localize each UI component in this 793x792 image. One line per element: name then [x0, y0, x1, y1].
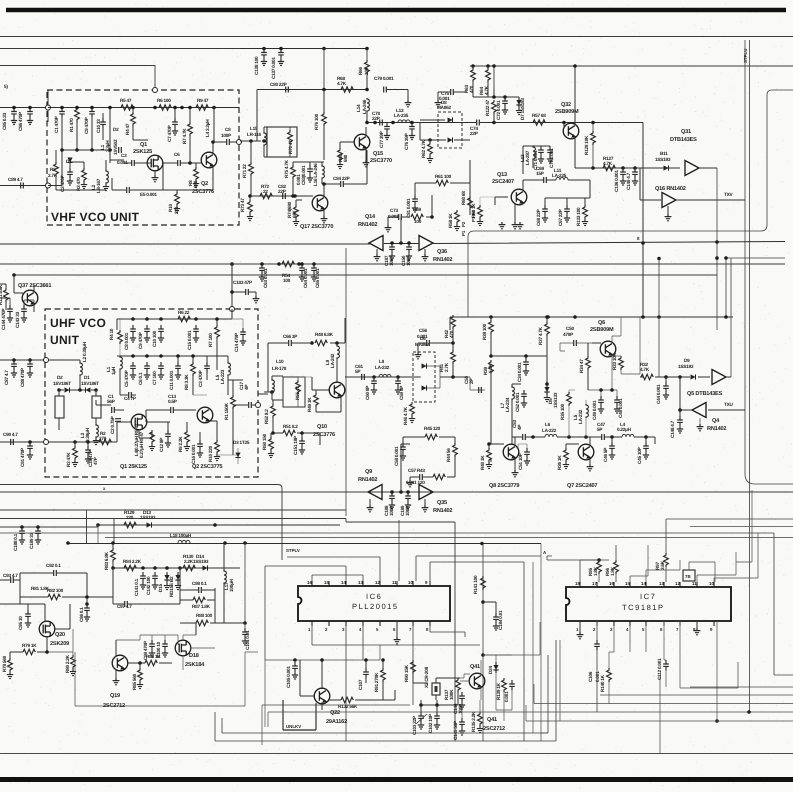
- transistor Q41 2SC2712: [469, 673, 485, 689]
- wire pin4 down: [362, 626, 364, 660]
- svg-text:470P: 470P: [563, 332, 573, 337]
- transistor Q7 2SC2407: [578, 444, 594, 460]
- svg-text:B11: B11: [660, 151, 668, 156]
- capacitor C142 100: [152, 572, 158, 582]
- capacitor C9 470P: [89, 108, 95, 118]
- resistor R59 100: [411, 214, 423, 219]
- wire x401: [401, 444, 491, 492]
- wires C73 R59: [388, 195, 432, 243]
- wire: [267, 712, 269, 727]
- ground IC7 pin8: [694, 628, 701, 635]
- svg-text:Q41: Q41: [487, 717, 497, 723]
- wire R90: [413, 674, 428, 683]
- wire y122 to D8: [420, 122, 470, 124]
- wire R79: [10, 652, 47, 658]
- pin 1 IC7: [579, 621, 581, 626]
- wire: [270, 433, 272, 437]
- svg-text:R81 1.8K: R81 1.8K: [31, 586, 50, 591]
- wires C102/C103: [421, 700, 458, 712]
- top border heavy bar: [6, 8, 786, 12]
- junction: [621, 166, 625, 170]
- capacitor C87: [11, 360, 17, 370]
- pin 12 IC6: [379, 581, 381, 586]
- wire E5: [112, 163, 163, 190]
- svg-text:R61 100: R61 100: [435, 174, 452, 179]
- bus y275: [14, 274, 717, 276]
- capacitor C14 470P: [240, 328, 246, 338]
- svg-text:C4 7P: C4 7P: [124, 396, 136, 401]
- junction: [145, 354, 149, 358]
- wire y543 STPLV: [68, 543, 541, 545]
- svg-text:100: 100: [414, 219, 422, 224]
- svg-text:C2 0.75P: C2 0.75P: [110, 416, 115, 434]
- wire R1: [228, 380, 243, 455]
- junction: [610, 388, 614, 392]
- svg-text:R75 4.7K: R75 4.7K: [284, 159, 289, 178]
- svg-text:C45 10P: C45 10P: [637, 447, 642, 464]
- wire C93: [0, 579, 20, 581]
- capacitor C7 100: [158, 362, 164, 372]
- pin 1 IC6: [311, 621, 313, 626]
- wires: [75, 442, 88, 446]
- capacitor C78 22P: [380, 120, 383, 126]
- junction: [138, 661, 142, 665]
- capacitor C7 470P: [172, 118, 178, 128]
- transistor Q32 2SB909M: [563, 123, 579, 139]
- pin 2 IC6: [328, 621, 330, 626]
- pin 6 IC7: [663, 621, 665, 626]
- junction: [60, 148, 64, 152]
- bus y527 left: [0, 526, 98, 528]
- svg-text:R56 1K: R56 1K: [471, 203, 476, 218]
- svg-text:C64 0.001: C64 0.001: [303, 268, 308, 288]
- svg-text:100: 100: [283, 278, 291, 283]
- svg-text:10: 10: [709, 581, 714, 586]
- capacitor C68 22P: [542, 205, 548, 215]
- svg-text:L10: L10: [276, 359, 284, 364]
- vert x483: [482, 544, 484, 742]
- svg-text:C102 10P: C102 10P: [428, 714, 433, 733]
- wires Q37: [0, 275, 34, 312]
- junction: [111, 541, 115, 545]
- svg-text:R44 56: R44 56: [446, 448, 451, 462]
- loop y706: [75, 652, 245, 706]
- ground IC6 pin6: [394, 637, 401, 644]
- svg-text:R3 470: R3 470: [76, 177, 81, 191]
- junction: [480, 542, 484, 546]
- node: [46, 183, 51, 188]
- junction: [591, 121, 595, 125]
- pin 17 IC7: [596, 582, 598, 587]
- junction: [90, 106, 94, 110]
- ch: [132, 160, 135, 166]
- capacitor C77 39P: [384, 123, 390, 133]
- ch: [427, 340, 430, 346]
- vert bus x749: [749, 40, 751, 712]
- capacitor C97 4.7: [125, 601, 128, 607]
- ground C56: [415, 352, 422, 359]
- junction: [481, 653, 485, 657]
- capacitor C93 4.7: [11, 577, 14, 583]
- svg-text:C6 0.1: C6 0.1: [138, 372, 143, 385]
- trir: [685, 161, 699, 176]
- UHF mid rail y356: [117, 355, 210, 357]
- capacitor C145 56P: [459, 718, 465, 728]
- wire left entry y185: [0, 185, 48, 187]
- loop Q22 region: [265, 645, 380, 727]
- section loop corner x767/y231: [468, 90, 793, 317]
- wire C13 row: [146, 410, 196, 422]
- junction: [503, 95, 507, 99]
- junction: [644, 435, 648, 439]
- ground C79: [405, 100, 412, 107]
- capacitor C101 0.01: [242, 628, 248, 638]
- junction: [20, 525, 24, 529]
- wires C144/C143: [10, 298, 34, 305]
- junction: [293, 194, 297, 198]
- svg-text:1SS193: 1SS193: [678, 364, 694, 369]
- junction: [191, 354, 195, 358]
- junction: [335, 341, 339, 345]
- svg-text:C70 0.001: C70 0.001: [549, 148, 554, 168]
- svg-text:2SK184: 2SK184: [185, 662, 205, 668]
- pin 11 IC7: [696, 582, 698, 587]
- wire pin12 feed: [287, 557, 380, 581]
- pin 11 IC6: [396, 581, 398, 586]
- svg-text:D2: D2: [113, 127, 119, 132]
- inductor L13 LA-235: [398, 120, 410, 123]
- ground Q15 e: [363, 160, 370, 167]
- ch: [249, 402, 252, 408]
- junction: [111, 566, 115, 570]
- junction: [678, 408, 682, 412]
- bottom thin rule: [0, 753, 793, 755]
- junction: [131, 106, 135, 110]
- capacitor C9u: [144, 325, 150, 335]
- svg-text:Q32: Q32: [561, 102, 571, 108]
- wire x324 col: [323, 90, 325, 161]
- junction: [66, 541, 70, 545]
- resistor R1 470: [75, 108, 80, 122]
- ground a: [499, 222, 506, 229]
- ch: [477, 120, 480, 126]
- svg-text:LA-246: LA-246: [362, 99, 367, 114]
- junction: [176, 354, 180, 358]
- junction: [271, 431, 275, 435]
- junction: [406, 490, 410, 494]
- svg-text:100P: 100P: [389, 506, 394, 516]
- resistor R84 2.2K: [124, 565, 136, 570]
- junction: [486, 64, 490, 68]
- svg-text:LB-167: LB-167: [96, 178, 101, 193]
- wire y433: [273, 433, 320, 445]
- capacitor C86: [27, 108, 33, 118]
- svg-text:R35 100: R35 100: [560, 403, 565, 420]
- junction: [212, 106, 216, 110]
- svg-text:C68 22P: C68 22P: [536, 209, 541, 226]
- ground Q8: [512, 470, 519, 477]
- transistor Q2 2SC3775 UHF: [197, 407, 213, 423]
- ch: [11, 439, 14, 445]
- wire: [139, 663, 141, 668]
- svg-text:LR-178: LR-178: [272, 366, 287, 371]
- svg-text:R133 100: R133 100: [576, 207, 581, 226]
- svg-text:C84 22P: C84 22P: [333, 176, 350, 181]
- svg-text:1SS193: 1SS193: [140, 515, 156, 520]
- junction: [310, 341, 314, 345]
- svg-text:D18: D18: [189, 653, 199, 659]
- pin15 wire: [630, 545, 648, 582]
- svg-text:R128 10K: R128 10K: [584, 135, 589, 155]
- pin 9 IC6: [429, 581, 431, 586]
- svg-text:R79 1K: R79 1K: [22, 643, 37, 648]
- svg-text:C138 100: C138 100: [254, 56, 259, 75]
- ground Q7: [587, 464, 594, 471]
- wire L17 col: [223, 543, 225, 623]
- wire: [493, 114, 495, 123]
- svg-text:R88 100: R88 100: [196, 613, 213, 618]
- transistor Q1 2SK125: [147, 155, 163, 171]
- pin 3 IC6: [345, 621, 347, 626]
- svg-text:RD15E B2: RD15E B2: [169, 576, 174, 597]
- capacitor C98 0.1: [199, 587, 202, 593]
- wire stub L: [58, 390, 60, 430]
- capacitor C67 22P: [564, 205, 570, 215]
- junction: [641, 315, 645, 319]
- svg-text:22P: 22P: [470, 131, 478, 136]
- wire C51: [518, 444, 527, 448]
- svg-text:C80 22P: C80 22P: [270, 82, 287, 87]
- svg-text:R51 8.2: R51 8.2: [283, 424, 298, 429]
- ch: [171, 407, 174, 413]
- svg-text:C87 4.7: C87 4.7: [4, 370, 9, 385]
- UHF VCO UNIT dashed box: [45, 309, 258, 477]
- capacitor C81 0.001: [412, 195, 418, 205]
- svg-text:270: 270: [99, 436, 107, 441]
- transistor Q10 2SC3776: [329, 382, 345, 398]
- capacitor C48 0.001: [614, 396, 620, 406]
- svg-text:DTB143ES: DTB143ES: [670, 137, 697, 143]
- pin 3 IC7: [613, 621, 615, 626]
- svg-text:R91 270K: R91 270K: [374, 672, 379, 692]
- svg-text:Q4: Q4: [712, 418, 720, 424]
- capacitor C79 0.001: [384, 87, 387, 93]
- resistor R7 4.7K: [188, 122, 193, 136]
- junction: [248, 194, 252, 198]
- buffer Q36 RN1402: [419, 236, 433, 251]
- capacitor C50 470P: [574, 340, 577, 346]
- wires R63/R64: [473, 66, 519, 97]
- wire C14: [232, 319, 243, 328]
- svg-text:C67 22P: C67 22P: [558, 209, 563, 226]
- bus line y36: [0, 36, 793, 38]
- svg-text:Q36: Q36: [437, 249, 447, 255]
- pin 10 IC6: [412, 581, 414, 586]
- pin 15 IC6: [328, 581, 330, 586]
- vert x731 + x659: [659, 259, 731, 378]
- wire R7: [216, 319, 218, 370]
- wire out: [258, 393, 268, 395]
- tril: [692, 403, 706, 418]
- junction: [365, 121, 369, 125]
- svg-text:C63 0.001: C63 0.001: [263, 268, 268, 288]
- wires bottom Q1/Q2: [139, 421, 217, 440]
- junction: [211, 140, 215, 144]
- resistor R2 270: [99, 439, 111, 444]
- junction: [322, 182, 326, 186]
- wire: [249, 196, 251, 200]
- junction: [545, 315, 549, 319]
- svg-text:RN1402: RN1402: [358, 222, 377, 228]
- junction: [372, 375, 376, 379]
- svg-text:0.001: 0.001: [504, 691, 509, 702]
- junction: [291, 194, 295, 198]
- wire L5: [210, 356, 228, 395]
- svg-text:R80 2.2K: R80 2.2K: [65, 654, 70, 673]
- wires Q22: [300, 660, 322, 710]
- pin10 wire: [714, 533, 758, 582]
- svg-text:1SV186T: 1SV186T: [53, 381, 71, 386]
- junction: [390, 241, 394, 245]
- pin 14 IC6: [345, 581, 347, 586]
- buffer Q9 RN1402: [368, 485, 382, 500]
- svg-text:C148 4.7: C148 4.7: [670, 420, 675, 438]
- wires R80: [47, 629, 73, 655]
- transistor Q15 2SC3770: [354, 134, 370, 150]
- resistor R57 68: [533, 120, 545, 125]
- capacitor C141 0.1: [140, 572, 146, 582]
- svg-text:C5 470P: C5 470P: [124, 370, 129, 387]
- capacitor C18 47P: [85, 446, 91, 456]
- buffer Q14 RN1402: [369, 236, 383, 251]
- transistor Q20 2SK209: [39, 621, 55, 637]
- svg-text:R46 4.7K: R46 4.7K: [403, 406, 408, 425]
- svg-text:C46 5P: C46 5P: [603, 448, 608, 462]
- wire y377: [640, 376, 731, 378]
- wire y243 row: [0, 242, 785, 245]
- capacitor C187 100P: [389, 243, 395, 253]
- svg-text:C10 100: C10 100: [152, 330, 157, 347]
- wire C50: [560, 343, 592, 351]
- svg-text:TXV: TXV: [724, 192, 733, 197]
- svg-text:R1 470: R1 470: [69, 118, 74, 132]
- capacitor cpl: [119, 147, 122, 153]
- svg-text:Q9: Q9: [365, 469, 372, 475]
- junction: [300, 431, 304, 435]
- svg-text:12: 12: [675, 581, 680, 586]
- ground C57: [407, 480, 414, 487]
- junction: [249, 139, 253, 143]
- dh: [691, 374, 696, 379]
- svg-text:C183 47P: C183 47P: [233, 280, 252, 285]
- svg-text:5P: 5P: [597, 427, 602, 432]
- vert x245: [244, 543, 246, 628]
- svg-text:10: 10: [408, 580, 413, 585]
- wires caps row: [545, 180, 590, 205]
- svg-text:0.27µH R5 47: 0.27µH R5 47: [139, 431, 144, 458]
- junction: [365, 47, 369, 51]
- pin14 wire: [646, 560, 680, 582]
- junction: [153, 566, 157, 570]
- loop y741: [215, 640, 556, 741]
- capacitor C105 0.001: [292, 662, 298, 672]
- svg-text:C96 0.1: C96 0.1: [79, 607, 84, 622]
- svg-text:R7 100: R7 100: [208, 333, 213, 347]
- wires Q13: [495, 180, 590, 222]
- svg-text:R131 5.6K: R131 5.6K: [0, 284, 3, 305]
- junction: [262, 139, 266, 143]
- varactor D8 MA862 dashed box: [438, 112, 462, 148]
- capacitor C15 0.001: [193, 325, 199, 335]
- svg-text:C16 0.001: C16 0.001: [191, 444, 196, 464]
- node UHF RF out: [256, 403, 261, 408]
- pin 16 IC7: [613, 582, 615, 587]
- wires Q6 coll: [612, 317, 621, 374]
- svg-text:C100 10: C100 10: [156, 641, 161, 658]
- capacitor C100 10: [162, 640, 168, 650]
- wires X2: [436, 678, 460, 700]
- wire pin9 down: [716, 621, 718, 721]
- bus y66 right + drop x494: [470, 66, 793, 90]
- capacitor C72 0.001: [502, 97, 508, 107]
- junction: [131, 354, 135, 358]
- svg-text:R9 2.2K: R9 2.2K: [178, 436, 183, 452]
- svg-text:1SV186T: 1SV186T: [81, 381, 99, 386]
- svg-text:R40 1K: R40 1K: [480, 455, 485, 470]
- svg-text:C85 0.33: C85 0.33: [2, 112, 7, 130]
- capacitor C58 0.001: [400, 443, 406, 453]
- junction: [584, 435, 588, 439]
- junction: [567, 435, 571, 439]
- transistor Q1 2SK125 UHF: [131, 414, 147, 430]
- junction: [96, 523, 100, 527]
- wire R56: [480, 197, 495, 205]
- svg-text:1SS193: 1SS193: [193, 559, 209, 564]
- junction: [545, 382, 549, 386]
- junction: [108, 148, 112, 152]
- buffer Q35 RN1402: [419, 485, 433, 500]
- pin 14 IC7: [645, 582, 647, 587]
- resistor R10 220: [175, 192, 180, 206]
- svg-text:R122 47: R122 47: [485, 99, 490, 116]
- svg-text:C8: C8: [225, 127, 231, 132]
- wires Q16: [640, 168, 745, 214]
- svg-text:VHF VCO UNIT: VHF VCO UNIT: [51, 210, 140, 224]
- svg-text:C12 8P: C12 8P: [159, 438, 164, 452]
- junction: [12, 106, 16, 110]
- junction: [320, 658, 324, 662]
- capacitor C65 0.001: [311, 264, 317, 274]
- svg-text:C77 39P: C77 39P: [379, 131, 384, 148]
- ground Q16: [665, 214, 672, 221]
- ground Q4: [697, 424, 704, 431]
- wire: [261, 705, 263, 745]
- capacitor C91 470P: [27, 442, 33, 452]
- wire: [369, 499, 371, 505]
- pin 7 IC6: [412, 621, 414, 626]
- dh: [147, 522, 152, 527]
- ground Q13: [512, 222, 519, 229]
- node: [44, 358, 49, 363]
- junction: [230, 290, 234, 294]
- bus line y48 + drop x324: [0, 49, 367, 90]
- UHF top rail: [117, 309, 232, 330]
- svg-text:1SS133: 1SS133: [553, 392, 558, 408]
- ch: [115, 419, 121, 422]
- pin 2 IC7: [596, 621, 598, 626]
- ch: [129, 392, 132, 398]
- svg-text:C73: C73: [390, 208, 398, 213]
